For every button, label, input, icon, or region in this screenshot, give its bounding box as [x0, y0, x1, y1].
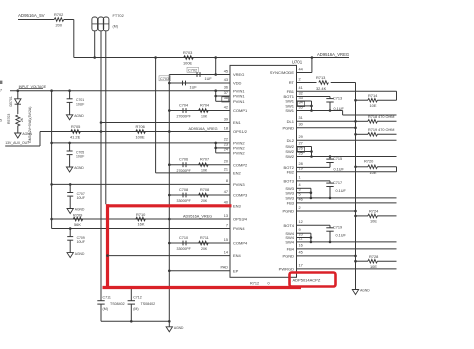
svg-text:20: 20 [224, 160, 228, 164]
junction tube2 rail on OPS row [100, 130, 103, 133]
svg-text:37: 37 [224, 91, 228, 95]
svg-text:AD9516A_VREG: AD9516A_VREG [317, 52, 349, 57]
net label underline [19, 88, 43, 90]
wire PVIN1 pin37 stub [216, 95, 230, 97]
wire PGND pin2 row y=211 [297, 210, 356, 212]
wire SW3 net y=197.9 [311, 197, 397, 199]
svg-text:AGND: AGND [74, 166, 84, 170]
wire SW1 pin stubs and bracket [297, 100, 312, 102]
svg-text:13V_AUX_OUT: 13V_AUX_OUT [5, 141, 29, 145]
svg-text:EP: EP [233, 268, 239, 273]
capacitor C702 [196, 72, 198, 77]
wire C712 to bottom wire [130, 304, 132, 321]
svg-text:27: 27 [299, 141, 303, 145]
wire R5703 to AGND [17, 126, 19, 130]
svg-text:TS08402: TS08402 [110, 302, 125, 306]
wire C710 R711 COMP row y=243 [169, 242, 230, 244]
svg-text:C711: C711 [103, 296, 111, 300]
wire SW2 net y=156.5 [312, 156, 397, 158]
svg-text:DL1: DL1 [287, 119, 295, 124]
svg-text:COMP4: COMP4 [233, 241, 248, 246]
svg-text:D5701: D5701 [9, 96, 13, 106]
junction SW4 bracket bottom [310, 241, 313, 244]
svg-text:AGND: AGND [75, 252, 85, 256]
wire SW3 pin stubs and bracket [297, 187, 311, 189]
svg-text:10E: 10E [370, 219, 377, 224]
svg-text:40: 40 [224, 201, 228, 205]
svg-text:C704: C704 [179, 103, 188, 107]
ground AGND below R5703 [17, 130, 19, 134]
junction C705 [68, 142, 71, 145]
resistor R728 [368, 259, 378, 263]
svg-text:AD9516A_VREG: AD9516A_VREG [189, 127, 218, 131]
resistor R707 [199, 163, 209, 167]
capacitor C703 [182, 81, 184, 86]
wire C705 to AGND [69, 154, 71, 157]
svg-text:1: 1 [299, 176, 301, 180]
svg-text:2: 2 [299, 77, 301, 81]
svg-text:43: 43 [224, 78, 228, 82]
wire corner up to R705 row [39, 132, 41, 147]
wire PVIN2 bus y=142.9 [52, 142, 230, 144]
capacitor C715 [329, 157, 331, 160]
svg-text:AGND: AGND [174, 326, 184, 330]
svg-text:0: 0 [268, 282, 270, 286]
junction R724 on right rail [354, 215, 357, 218]
svg-text:VDD: VDD [233, 81, 242, 86]
ground AGND below C707 [69, 197, 71, 209]
junction VREG row [214, 73, 217, 76]
svg-text:R710: R710 [136, 212, 146, 217]
svg-text:10E: 10E [370, 264, 377, 269]
svg-text:U701: U701 [292, 59, 303, 64]
resistor R713 [319, 81, 329, 85]
svg-text:ADP5014ACPZ: ADP5014ACPZ [293, 278, 321, 283]
capacitor C701 [69, 91, 71, 99]
svg-text:FB3: FB3 [287, 201, 295, 206]
svg-text:31: 31 [299, 116, 303, 120]
wire PVIN2 pin23 stub [216, 147, 230, 149]
junction R714 on right rail [354, 99, 357, 102]
junction D5701 stem [17, 89, 20, 92]
wire SW4 net y=241.9 [311, 241, 397, 243]
svg-text:0.1UF: 0.1UF [336, 234, 347, 238]
svg-text:7: 7 [0, 89, 2, 93]
wire SW1 net y=110.5 [312, 110, 343, 112]
svg-text:C712: C712 [133, 296, 142, 300]
wire BOT2 pin28 row y=167.4 [297, 166, 331, 168]
ground AGND below C701 [69, 103, 71, 115]
svg-text:27000PF: 27000PF [177, 115, 191, 119]
svg-text:12: 12 [299, 220, 303, 224]
wire PWRGD row y=268.9 [297, 268, 397, 270]
wire FB3 row y=202.9 [297, 202, 397, 204]
resistor R706 [136, 130, 146, 134]
svg-text:41: 41 [299, 86, 303, 90]
wire C717 to SW3 net [329, 187, 331, 198]
junction C709 [69, 227, 72, 230]
svg-text:PGND: PGND [282, 254, 294, 259]
svg-text:5: 5 [0, 119, 2, 123]
wire C708 R708 COMP row y=195 [169, 194, 230, 196]
svg-text:COMP3: COMP3 [233, 193, 248, 198]
wire C715 to BOT2 [329, 163, 331, 168]
wire PGND pin30 row y=127.8 [297, 127, 356, 129]
svg-text:R703: R703 [183, 50, 192, 55]
red highlight box around part number [290, 273, 336, 287]
svg-text:AD9516A_VREG: AD9516A_VREG [183, 215, 212, 219]
junction R728 on right rail [354, 260, 357, 263]
junction PGND pin45 on right rail [354, 255, 357, 258]
svg-text:EN3: EN3 [233, 203, 242, 208]
junction SW2 bracket [310, 150, 313, 153]
wire FB4 row y=248.9 [297, 248, 397, 250]
junction PVIN1 pin37 [214, 95, 217, 98]
svg-text:32: 32 [299, 91, 303, 95]
svg-text:PAD: PAD [220, 266, 228, 270]
wire VREG bus y=57.5 [74, 57, 316, 59]
capacitor C711 [100, 288, 102, 301]
wire BOT1 pin32 to C713 [297, 96, 331, 98]
svg-text:1UF: 1UF [205, 77, 213, 81]
svg-text:SYNC/MODE: SYNC/MODE [270, 70, 295, 75]
svg-text:17: 17 [299, 264, 303, 268]
svg-text:33000PF: 33000PF [177, 247, 191, 251]
svg-text:10K: 10K [201, 169, 208, 173]
junction PGND pin2 on right rail [354, 210, 357, 213]
svg-text:C706: C706 [179, 158, 188, 162]
wire INPUT_VOLTAGE bus y=90.7 to pin 36 [10, 90, 230, 92]
svg-text:PVIN4: PVIN4 [233, 226, 245, 231]
svg-text:C715: C715 [333, 157, 342, 161]
wire SYNC/MODE pin44 to bus [297, 72, 312, 74]
junction COMP row on AGND rail [168, 194, 171, 197]
svg-text:FT702: FT702 [113, 13, 124, 18]
svg-text:OPS1/2: OPS1/2 [233, 129, 248, 134]
wire VREG pin rail x=215.7 [215, 58, 217, 75]
selection box around right pin 34 [298, 101, 305, 106]
svg-text:8: 8 [226, 179, 228, 183]
svg-text:30: 30 [299, 123, 303, 127]
resistor R710 [136, 217, 146, 221]
svg-text:R708: R708 [200, 188, 209, 192]
junction SW4 bracket [310, 236, 313, 239]
svg-text:R705: R705 [71, 124, 80, 129]
svg-text:R711: R711 [200, 236, 209, 240]
svg-text:R702: R702 [54, 12, 63, 17]
svg-text:28: 28 [299, 162, 303, 166]
svg-text:BOT3: BOT3 [284, 179, 295, 184]
resistor R702 [54, 18, 64, 22]
ground AGND below C705 [69, 155, 71, 167]
svg-text:R709: R709 [73, 213, 82, 218]
wire PVIN4 bus y=228.5 [52, 228, 230, 230]
resistor R711 [199, 241, 209, 245]
svg-text:AGND: AGND [75, 208, 85, 212]
capacitor C717 [326, 182, 333, 184]
wire net AD9516A_5V to R702 [18, 19, 54, 21]
wire DL2 row y=140.2 [297, 139, 397, 141]
resistor R720 [368, 165, 378, 169]
wire C706 R707 COMP row y=164.7 [169, 164, 230, 166]
junction SW2 bracket bottom [310, 155, 313, 158]
wire SW4 pin stubs and bracket [297, 232, 311, 234]
capacitor C713 [326, 98, 333, 100]
red highlight EN3 trace horizontal [106, 204, 232, 207]
svg-text:21: 21 [224, 168, 228, 172]
junction SW1 bracket bottom [310, 109, 313, 112]
svg-text:5: 5 [299, 193, 301, 197]
svg-text:INPUT_VOLTAGE: INPUT_VOLTAGE [19, 85, 47, 89]
wire join R720 to FB2 [396, 167, 398, 172]
svg-text:PGND: PGND [282, 209, 294, 214]
wire PVIN2 pin24 stub [216, 152, 230, 154]
svg-text:R724: R724 [369, 209, 379, 214]
svg-text:R5703: R5703 [7, 114, 11, 124]
wire FT702-1 to bus [94, 31, 96, 58]
wire C704 R704 COMP row y=110.5 [169, 110, 230, 112]
svg-text:45: 45 [224, 69, 228, 73]
svg-text:C710: C710 [179, 236, 188, 240]
ground AGND below C709 [69, 241, 71, 253]
svg-text:EN4: EN4 [233, 253, 242, 258]
junction C701 [68, 89, 71, 92]
svg-text:C719: C719 [333, 226, 342, 230]
svg-text:R714: R714 [368, 93, 378, 98]
resistor R718 [368, 120, 378, 124]
wire FT702-3 vertical down to EN3 red corner [105, 31, 107, 205]
svg-text:20K: 20K [201, 247, 208, 251]
junction VDD row on AGND rail [168, 82, 171, 85]
wire R702 to corner [64, 19, 74, 21]
svg-text:20K: 20K [201, 199, 208, 203]
junction C712 on bottom wire [130, 320, 133, 323]
resistor R5703 [16, 115, 20, 126]
svg-text:C702: C702 [188, 68, 197, 72]
svg-text:R706: R706 [136, 124, 145, 129]
svg-text:10E: 10E [370, 103, 377, 108]
svg-text:TS08402: TS08402 [141, 302, 156, 306]
svg-text:2: 2 [299, 206, 301, 210]
resistor R724 [368, 214, 378, 218]
svg-text:R713: R713 [316, 75, 325, 80]
junction COMP row on AGND rail [168, 109, 171, 112]
svg-text:13: 13 [224, 214, 228, 218]
svg-text:23: 23 [224, 143, 228, 147]
svg-text:18: 18 [224, 126, 228, 130]
svg-text:29: 29 [299, 135, 303, 139]
svg-text:SW2: SW2 [285, 154, 294, 159]
svg-text:C703: C703 [160, 77, 169, 81]
junction SW3 bracket [310, 191, 313, 194]
capacitor C704 [182, 108, 184, 113]
svg-text:0.1UF: 0.1UF [336, 189, 347, 193]
wire C709 to AGND [69, 239, 71, 242]
svg-text:10UF: 10UF [77, 196, 85, 200]
svg-text:PVIN3: PVIN3 [233, 182, 245, 187]
wire R713 to right rail [331, 82, 356, 84]
wire join FB1 to R714 [396, 91, 398, 100]
selection box around right pin 26 [298, 147, 305, 152]
svg-text:(M): (M) [103, 307, 108, 311]
wire PVIN3 bus y=184.4 [52, 183, 230, 185]
svg-text:SW1: SW1 [285, 108, 294, 113]
resistor R704 [199, 109, 209, 113]
svg-text:RT: RT [289, 80, 295, 85]
svg-text:0.1UF: 0.1UF [334, 168, 345, 172]
svg-text:2K: 2K [20, 117, 24, 122]
red highlight EN3 vertical [106, 204, 109, 289]
svg-text:FB2: FB2 [287, 169, 295, 174]
svg-text:36: 36 [224, 86, 228, 90]
wire FT702-2 vertical rail down to C711 [100, 31, 102, 288]
svg-text:(M): (M) [113, 25, 118, 29]
wire C711 to bottom wire [100, 304, 102, 321]
svg-text:16K: 16K [138, 222, 145, 227]
junction C717 on SW3 net [329, 197, 332, 200]
svg-text:R712: R712 [250, 282, 259, 286]
wire BOT3 pin1 to C717 [297, 180, 331, 182]
svg-text:AGND: AGND [360, 289, 370, 293]
svg-text:R720: R720 [364, 159, 374, 164]
junction PVIN2 bus on left rail [50, 142, 53, 145]
svg-text:COMP2: COMP2 [233, 162, 248, 167]
wire BOT4 pin12 to C719 [297, 224, 331, 226]
junction EN4 tap on red EN3 vertical [106, 254, 109, 257]
junction PVIN3 bus on left rail [50, 183, 53, 186]
svg-text:32.4K: 32.4K [316, 86, 327, 91]
svg-text:AGND: AGND [74, 114, 84, 118]
svg-text:EN2: EN2 [233, 171, 242, 176]
svg-text:DL2: DL2 [287, 138, 295, 143]
svg-text:4: 4 [299, 183, 301, 187]
junction EN2 rail on bus [154, 56, 157, 59]
svg-text:10UF: 10UF [77, 240, 85, 244]
junction C707 [69, 183, 72, 186]
svg-text:10UF: 10UF [76, 155, 84, 159]
svg-text:VREG: VREG [233, 72, 244, 77]
junction PVIN2 pin23 [214, 147, 217, 150]
junction PVIN1 pin36 [214, 89, 217, 92]
svg-text:47: 47 [224, 190, 228, 194]
svg-text:SW4: SW4 [285, 240, 294, 245]
junction left rail [50, 89, 53, 92]
junction SW3 bracket bottom [310, 197, 313, 200]
svg-text:38: 38 [224, 96, 228, 100]
wire PAD row y=270.2 [169, 270, 230, 272]
wire EN4 row y=254.5 from EN3 net [108, 255, 231, 257]
capacitor C710 [182, 241, 184, 246]
svg-text:44: 44 [299, 67, 303, 71]
svg-text:33000PF: 33000PF [177, 199, 191, 203]
svg-text:BOT4: BOT4 [284, 223, 295, 228]
svg-text:22: 22 [224, 138, 228, 142]
ground AGND below right rail [355, 288, 357, 290]
wire DL1 row y=121.3 [297, 120, 356, 122]
svg-text:R704: R704 [200, 103, 209, 107]
capacitor C705 [69, 143, 71, 151]
svg-text:C708: C708 [179, 188, 188, 192]
svg-text:16: 16 [299, 244, 303, 248]
wire EN2 riser x=155.6 [155, 58, 157, 173]
svg-text:R719 470 OHM: R719 470 OHM [368, 128, 394, 132]
svg-text:39: 39 [224, 117, 228, 121]
capacitor C708 [182, 193, 184, 198]
svg-text:27000PF: 27000PF [177, 169, 191, 173]
wire D5701 to R5703 [17, 104, 19, 114]
junction AGND rail on bottom wire [168, 320, 171, 323]
capacitor C719 [326, 227, 333, 229]
junction PGND pin30 on right rail [354, 127, 357, 130]
svg-text:PVIN1: PVIN1 [233, 99, 245, 104]
junction SW1 bracket [310, 105, 313, 108]
junction COMP row on AGND rail [168, 242, 171, 245]
tiny clipped mark top left [0, 81, 2, 84]
wire PVIN2 bracket x=215.7 [215, 143, 217, 153]
svg-text:100E: 100E [136, 134, 145, 139]
svg-text:1UF: 1UF [190, 86, 198, 90]
junction EN1 on tube2 rail [100, 121, 103, 124]
wire C713 to SW1 net [329, 102, 331, 111]
junction FT702-1 on bus [93, 56, 96, 59]
capacitor C709 [69, 229, 71, 237]
IC U701 ADP5014ACPZ body [230, 65, 297, 277]
wire VDD row y=83 [169, 82, 230, 84]
wire FB1 row y=91.3 [297, 90, 397, 92]
svg-text:(M): (M) [133, 307, 138, 311]
svg-text:R718 470 OHM: R718 470 OHM [368, 115, 394, 119]
resistor R705 [71, 130, 81, 134]
junction C719 on SW4 net [329, 241, 332, 244]
diode D5701 [17, 91, 19, 99]
svg-text:41.2E: 41.2E [70, 134, 81, 139]
wire right rail x=355.5 [355, 83, 357, 288]
svg-text:AD9516A_5V: AD9516A_5V [18, 13, 45, 18]
resistor R708 [199, 193, 209, 197]
capacitor C712 [130, 288, 132, 301]
svg-text:R707: R707 [200, 158, 209, 162]
svg-text:15: 15 [224, 238, 228, 242]
svg-text:R728: R728 [369, 254, 378, 259]
junction COMP row on AGND rail [168, 163, 171, 166]
wire EN2 row y=172.9 [156, 172, 230, 174]
junction R710 row on AGND rail [168, 218, 171, 221]
resistor R703 [184, 56, 194, 60]
wire SW2 pin stubs and bracket [297, 146, 312, 148]
junction PAD row on AGND rail [168, 270, 171, 273]
svg-text:COMP1: COMP1 [233, 108, 248, 113]
svg-text:42: 42 [224, 105, 228, 109]
wire vertical down to VREG bus [73, 20, 75, 58]
resistor R714 [368, 98, 378, 102]
wire C719 to SW4 net [329, 231, 331, 242]
red highlight EN3 bottom horizontal [103, 286, 302, 289]
wire SW1 step down [342, 111, 344, 116]
ground AGND bottom [168, 321, 170, 327]
wire FB2 row y=171.8 [297, 171, 397, 173]
svg-text:PVIN1: PVIN1 [233, 88, 245, 93]
junction PVIN2 pin22 [214, 142, 217, 145]
svg-text:14: 14 [224, 250, 228, 254]
wire C707 to AGND [69, 195, 71, 198]
svg-text:PVIN2: PVIN2 [233, 151, 245, 156]
fuse array FT702 [92, 17, 98, 31]
svg-text:C717: C717 [333, 181, 342, 185]
wire SW1 net to right end [343, 114, 397, 116]
svg-text:PVIN1: PVIN1 [233, 94, 245, 99]
svg-text:GM5(12V+5VA)(5V/2A): GM5(12V+5VA)(5V/2A) [28, 107, 32, 143]
wire VREG row y=74.5 [169, 74, 230, 76]
